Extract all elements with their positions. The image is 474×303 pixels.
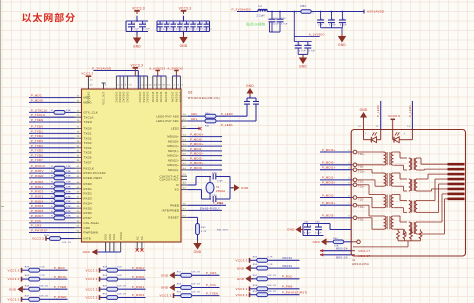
svg-text:P_CRS: P_CRS <box>31 224 42 228</box>
svg-text:R48: R48 <box>103 266 108 268</box>
title text 以太网部分 <box>22 13 75 23</box>
net label P_3V3AVDD <box>232 7 252 11</box>
capacitors C33 C34 on LED lines <box>244 96 259 111</box>
svg-text:AVDD33: AVDD33 <box>152 91 155 102</box>
svg-text:R: R <box>51 110 53 112</box>
svg-text:C25: C25 <box>281 18 286 20</box>
svg-text:33R: 33R <box>66 176 71 178</box>
svg-text:TXD4: TXD4 <box>84 146 92 150</box>
svg-text:AVDDIO: AVDDIO <box>175 92 178 103</box>
svg-text:RXD2: RXD2 <box>84 192 93 196</box>
svg-text:P_RXD3: P_RXD3 <box>31 194 44 198</box>
svg-text:R: R <box>51 201 53 203</box>
svg-text:P_TXD7: P_TXD7 <box>31 158 43 162</box>
ferrite bead FB2 <box>296 4 315 15</box>
svg-text:C: C <box>308 44 310 46</box>
svg-text:MDI0-1%: MDI0-1% <box>336 248 348 251</box>
svg-text:P_RXD2: P_RXD2 <box>31 190 44 194</box>
svg-text:10K 1%: 10K 1% <box>62 242 71 244</box>
svg-text:TXEN: TXEN <box>84 120 92 124</box>
wire row P_TXD2 <box>29 134 82 138</box>
svg-text:GTX_CLK: GTX_CLK <box>84 111 99 115</box>
J1 pin row P_MDI1+ <box>320 166 365 174</box>
svg-text:P_COL: P_COL <box>206 283 217 287</box>
svg-text:P_RXDV: P_RXDV <box>31 169 44 173</box>
ground (C29 C30) <box>299 55 308 69</box>
svg-text:R: R <box>51 191 53 193</box>
svg-text:0.1u: 0.1u <box>187 28 193 30</box>
svg-text:4.7K: 4.7K <box>267 256 273 258</box>
pull resistor R58 -> P_PME <box>235 285 299 292</box>
svg-text:R57: R57 <box>253 275 258 277</box>
IC right pin names <box>156 114 179 219</box>
svg-text:TD3+: TD3+ <box>358 206 365 209</box>
svg-text:AVDD33: AVDD33 <box>165 91 168 102</box>
ground (bank1) <box>133 35 142 49</box>
LED A inside J1 <box>364 130 381 143</box>
svg-text:RTL8211EG(VB-CG): RTL8211EG(VB-CG) <box>188 96 220 100</box>
svg-text:C2: C2 <box>207 23 211 25</box>
svg-text:P_MDI0-: P_MDI0- <box>322 161 335 165</box>
svg-text:TXD1: TXD1 <box>84 132 92 136</box>
ground (IC bottom) <box>83 249 98 255</box>
svg-text:C2: C2 <box>180 23 184 25</box>
svg-text:4.7K: 4.7K <box>201 231 207 233</box>
svg-text:33R: 33R <box>66 166 71 168</box>
svg-text:P_MDI1+: P_MDI1+ <box>322 166 336 170</box>
svg-text:CLKOUT-ALT: CLKOUT-ALT <box>159 178 179 182</box>
svg-text:GND: GND <box>133 45 141 49</box>
svg-text:P_3V3AVDD: P_3V3AVDD <box>232 7 252 11</box>
svg-text:DVDDIO: DVDDIO <box>139 92 142 103</box>
svg-text:P_TXER: P_TXER <box>54 285 66 289</box>
svg-text:RESET: RESET <box>168 216 179 220</box>
svg-text:P_LED0: P_LED0 <box>221 112 233 116</box>
power port VCC3.3 (INTB) <box>32 236 46 240</box>
capacitors C24 C25 <box>269 11 289 32</box>
svg-text:33R: 33R <box>66 171 71 173</box>
IC bottom ground pins <box>97 232 122 252</box>
svg-text:R54: R54 <box>177 292 182 294</box>
common-mode choke L2 in J1 <box>409 179 417 191</box>
svg-text:GND: GND <box>360 108 368 112</box>
J1 RJ45 contact comb <box>448 163 465 200</box>
svg-text:RXDV-PHYAD2: RXDV-PHYAD2 <box>84 171 106 175</box>
power port A_AVDD33 <box>149 67 165 77</box>
common-mode choke L4 in J1 <box>409 222 417 234</box>
svg-text:MDI[2]-: MDI[2]- <box>168 158 179 162</box>
svg-text:MDIO: MDIO <box>84 101 93 105</box>
svg-text:INTB/PMEB: INTB/PMEB <box>162 209 179 213</box>
svg-text:C2: C2 <box>174 23 178 25</box>
svg-text:R50: R50 <box>103 285 108 287</box>
svg-text:33R: 33R <box>66 110 71 112</box>
wire row P_MDI3+ (IC side) <box>181 161 222 165</box>
svg-text:P_MDI0-: P_MDI0- <box>190 137 203 141</box>
svg-text:DVDDIO: DVDDIO <box>143 92 146 103</box>
IC CLKOUT stub pins <box>181 174 187 184</box>
svg-text:10K 1%: 10K 1% <box>191 284 200 286</box>
svg-text:R42: R42 <box>201 227 206 229</box>
wire row P_RXDV <box>29 169 82 175</box>
svg-text:HR911105A: HR911105A <box>352 262 369 266</box>
svg-text:NC: NC <box>136 236 139 240</box>
pull resistor R52 -> P_CRS <box>161 271 220 279</box>
svg-text:R: R <box>51 166 53 168</box>
svg-text:C36: C36 <box>212 195 217 197</box>
svg-text:MDI[3]-: MDI[3]- <box>168 168 179 172</box>
svg-text:P_RXER: P_RXER <box>31 174 44 178</box>
J1 termination resistors <box>353 229 422 247</box>
J1 pin row P_MDI2- <box>320 193 364 201</box>
common-mode choke L3 in J1 <box>409 201 417 213</box>
svg-text:10K 1%: 10K 1% <box>191 292 200 294</box>
svg-text:NC: NC <box>141 236 144 240</box>
svg-text:P_MDI1-: P_MDI1- <box>322 176 335 180</box>
svg-text:MDI3-CT: MDI3-CT <box>359 255 371 258</box>
power port VCC3.3 (bank1) <box>132 7 145 15</box>
pull resistor R54 -> P_TXEN <box>159 291 219 298</box>
svg-text:VCC3.3: VCC3.3 <box>85 287 97 291</box>
svg-text:DVDDIO: DVDDIO <box>119 92 122 103</box>
pull resistor R46 -> P_TXER <box>9 285 68 293</box>
svg-text:4.7uF: 4.7uF <box>308 50 315 52</box>
svg-text:VCC3.3: VCC3.3 <box>85 296 97 300</box>
svg-text:P_PME: P_PME <box>282 285 293 289</box>
svg-text:AVDD33: AVDD33 <box>156 91 159 102</box>
svg-text:A3V3AVDD: A3V3AVDD <box>367 10 385 14</box>
wire row P_MDI2- (IC side) <box>181 156 222 160</box>
svg-text:61: 61 <box>167 85 170 87</box>
svg-text:GND: GND <box>105 234 108 240</box>
svg-text:R: R <box>51 206 53 208</box>
inductor L2 <box>257 4 268 18</box>
wire row P_RXD3 <box>29 194 82 200</box>
wire row P_RXER <box>29 174 82 180</box>
svg-text:MDC: MDC <box>84 96 91 100</box>
svg-text:VCC3.3: VCC3.3 <box>235 258 247 262</box>
svg-text:PMEB: PMEB <box>170 203 179 207</box>
svg-text:TD2+: TD2+ <box>358 186 365 189</box>
pull resistor R53 -> P_COL <box>161 283 220 291</box>
svg-text:VCC3.3: VCC3.3 <box>7 297 19 301</box>
svg-text:R49: R49 <box>103 275 108 277</box>
svg-text:P_3V3AVDD: P_3V3AVDD <box>92 66 112 70</box>
svg-text:C: C <box>332 19 334 21</box>
svg-text:X1: X1 <box>216 185 220 189</box>
svg-text:AD1: AD1 <box>191 117 197 121</box>
svg-text:TXD2: TXD2 <box>84 136 92 140</box>
capacitors C29 C30 on A_1VDDIO <box>293 11 325 57</box>
svg-text:R45: R45 <box>25 275 30 277</box>
svg-text:2.2K: 2.2K <box>267 264 273 266</box>
wire P_3V3AVDD to pin <box>92 66 138 89</box>
wire row P_MDI0- (IC side) <box>181 137 222 141</box>
ground up (LED caps) <box>246 84 254 96</box>
svg-text:P_TXD5: P_TXD5 <box>31 149 43 153</box>
svg-text:12pF: 12pF <box>217 180 223 182</box>
note green text <box>246 23 265 26</box>
svg-text:P_MDI1-: P_MDI1- <box>190 147 203 151</box>
svg-text:GND: GND <box>338 43 346 47</box>
svg-text:REG_OUT: REG_OUT <box>103 91 106 105</box>
svg-text:R56: R56 <box>253 264 258 266</box>
svg-text:LED0-PHY AD0: LED0-PHY AD0 <box>156 114 179 118</box>
IC top pin names (rotated) <box>88 91 183 105</box>
svg-text:R53: R53 <box>177 284 182 286</box>
svg-text:INTB: INTB <box>84 237 91 241</box>
svg-text:MDI[0]+: MDI[0]+ <box>167 135 179 139</box>
svg-text:33R: 33R <box>66 191 71 193</box>
svg-text:R41 49.9: R41 49.9 <box>217 230 228 232</box>
wires to crystal X1 <box>181 177 211 200</box>
pull resistor R59 -> P_PHYRST(RST) <box>235 290 307 297</box>
svg-text:2.2K: 2.2K <box>39 266 45 268</box>
pull resistor R50 -> P_RXD1 <box>85 285 145 292</box>
wire row P_MDI0+ (IC side) <box>181 133 222 137</box>
pull resistor R48 -> P_RXDV <box>85 266 145 273</box>
wire row config ENAB <box>181 206 222 210</box>
svg-text:P_MDI0+: P_MDI0+ <box>190 133 204 137</box>
ground (C26-C28) <box>338 34 347 48</box>
svg-text:C2: C2 <box>167 23 171 25</box>
svg-text:PWRDWN: PWRDWN <box>84 231 99 235</box>
J1 transformer-to-choke wiring <box>394 152 407 234</box>
svg-text:R55: R55 <box>253 256 258 258</box>
svg-text:2.2K: 2.2K <box>39 275 45 277</box>
svg-text:P_RXD2: P_RXD2 <box>132 293 145 297</box>
svg-text:R43: R43 <box>25 266 30 268</box>
pull resistor R51 -> P_RXD2 <box>85 293 145 300</box>
svg-text:GND: GND <box>299 65 307 69</box>
pull resistor R43 -> P_MDC <box>7 266 67 273</box>
capacitors C31 C32 (center tap) <box>301 221 351 235</box>
svg-text:R: R <box>51 176 53 178</box>
svg-text:R46: R46 <box>25 285 30 287</box>
svg-text:P_COL: P_COL <box>31 219 42 223</box>
svg-text:33R: 33R <box>66 216 71 218</box>
svg-text:VCC3.3: VCC3.3 <box>81 71 93 75</box>
svg-text:P_MDI3+: P_MDI3+ <box>190 161 204 165</box>
svg-text:R30: R30 <box>205 113 210 115</box>
svg-text:P_RXER: P_RXER <box>54 295 67 299</box>
svg-text:P_MDIO: P_MDIO <box>31 98 44 102</box>
svg-text:RXD3: RXD3 <box>84 197 93 201</box>
svg-text:P_RXC: P_RXC <box>282 275 293 279</box>
svg-text:TD0-: TD0- <box>358 166 364 169</box>
svg-text:GND: GND <box>194 250 202 254</box>
pull resistor R55 -> VDA33 <box>235 256 299 263</box>
J1 pin row P_MDI3+ <box>320 201 365 209</box>
svg-text:P_MDI2+: P_MDI2+ <box>322 181 336 185</box>
svg-text:33R: 33R <box>66 182 71 184</box>
svg-text:C2: C2 <box>187 23 191 25</box>
svg-text:C31: C31 <box>304 221 309 223</box>
J1 primary wiring <box>357 152 384 229</box>
connector J1 HR911105A outline <box>351 130 465 257</box>
wire P_LED0 vertical <box>376 101 381 130</box>
svg-text:R51: R51 <box>103 294 108 296</box>
svg-text:R: R <box>51 187 53 189</box>
svg-text:C: C <box>343 19 345 21</box>
wire row P_RXD6 <box>29 209 82 215</box>
wire row P_RXD2 <box>29 190 82 196</box>
wire row P_TXD5 <box>29 149 82 153</box>
svg-text:33R: 33R <box>66 211 71 213</box>
svg-text:P_LED1: P_LED1 <box>221 123 233 127</box>
svg-text:R: R <box>51 196 53 198</box>
svg-text:R: R <box>51 216 53 218</box>
svg-text:P_RXD7: P_RXD7 <box>31 214 44 218</box>
wire row P_MDI3- (IC side) <box>181 166 222 170</box>
svg-text:R31: R31 <box>205 125 210 127</box>
svg-text:GND: GND <box>287 228 295 232</box>
svg-text:33R: 33R <box>66 206 71 208</box>
svg-text:P_PHYRST: P_PHYRST <box>31 229 48 233</box>
svg-text:C: C <box>299 44 301 46</box>
svg-text:P_MDI3-: P_MDI3- <box>190 166 203 170</box>
svg-text:P_RXD5: P_RXD5 <box>31 204 44 208</box>
wire row P_COL <box>29 219 82 223</box>
power port VCC3.3 (top rail) <box>130 64 143 77</box>
wire row P_MDI1- (IC side) <box>181 147 222 151</box>
svg-text:XI: XI <box>176 183 179 187</box>
wire row P_TXEN <box>29 118 82 122</box>
svg-text:C2: C2 <box>200 23 204 25</box>
svg-text:TD2-: TD2- <box>358 198 364 201</box>
svg-text:R44: R44 <box>333 238 338 240</box>
svg-text:P_RXD0: P_RXD0 <box>31 180 44 184</box>
wire LED2 stub <box>181 127 202 131</box>
svg-text:R: R <box>51 211 53 213</box>
svg-text:GND: GND <box>237 277 245 281</box>
pull resistor R49 -> P_RXD0 <box>85 275 145 282</box>
svg-text:VDA33: VDA33 <box>282 256 292 260</box>
svg-text:AVDDIO: AVDDIO <box>171 92 174 103</box>
svg-text:GND: GND <box>113 234 116 240</box>
svg-text:GND: GND <box>83 250 91 254</box>
power port A_3VDDIO <box>167 67 183 77</box>
svg-text:RXD5: RXD5 <box>84 206 93 210</box>
J1 pin row P_MDI1- <box>320 176 364 184</box>
IC top power pins and rails <box>89 76 184 89</box>
svg-text:VCC3.3: VCC3.3 <box>7 277 19 281</box>
svg-text:P_MDI2+: P_MDI2+ <box>190 152 204 156</box>
transformer T1 in J1 <box>384 152 394 165</box>
IC left pin names <box>84 96 106 241</box>
resistor R28 on INTB row <box>44 235 81 244</box>
IC U6 designator <box>188 91 193 95</box>
svg-text:C2: C2 <box>160 23 164 25</box>
svg-text:C35: C35 <box>212 173 217 175</box>
svg-text:P_MDI3+: P_MDI3+ <box>322 201 336 205</box>
capacitor C36 (bottom) <box>212 195 230 205</box>
svg-text:VCC3.3: VCC3.3 <box>85 277 97 281</box>
resistor R42 on RESET <box>181 215 228 240</box>
svg-text:TXD6: TXD6 <box>84 156 92 160</box>
svg-text:C24: C24 <box>273 18 278 20</box>
pull resistor R47 -> P_RXER <box>7 295 67 302</box>
wire row P_RXD5 <box>29 204 82 210</box>
svg-text:P_LED0: P_LED0 <box>376 105 380 117</box>
J1 pin row P_MDI3- <box>320 214 364 222</box>
svg-text:VCC3.3: VCC3.3 <box>130 64 143 68</box>
transformer T4 in J1 <box>384 216 394 229</box>
svg-text:DVDDIO: DVDDIO <box>127 92 130 103</box>
svg-text:VCC3.3: VCC3.3 <box>32 237 44 241</box>
svg-text:10K 1%: 10K 1% <box>39 295 48 297</box>
svg-text:GND: GND <box>109 234 112 240</box>
svg-text:TD1+: TD1+ <box>358 171 365 174</box>
svg-text:0.1u: 0.1u <box>193 28 199 30</box>
svg-text:1uF: 1uF <box>318 25 323 27</box>
wire row P_PME <box>181 201 226 205</box>
svg-text:C: C <box>321 19 323 21</box>
wire row P_TXD0 <box>29 125 82 129</box>
svg-text:MDI[2]+: MDI[2]+ <box>167 154 179 158</box>
svg-text:GND: GND <box>161 274 169 278</box>
svg-text:RXD0: RXD0 <box>84 182 93 186</box>
ground left (CT caps) <box>287 226 303 233</box>
svg-text:RXCLK: RXCLK <box>84 166 95 170</box>
crystal X1 25MHz <box>206 177 226 200</box>
svg-text:P_LED1: P_LED1 <box>408 105 412 117</box>
svg-text:R: R <box>51 182 53 184</box>
pull resistor R56 -> VDA33 <box>237 264 300 272</box>
svg-text:P_GTXCLK: P_GTXCLK <box>31 108 48 112</box>
connector J1 labels <box>352 258 369 266</box>
wire row P_TXD3 <box>29 139 82 143</box>
capacitor bank C20-C27 with rails <box>157 16 212 35</box>
svg-text:TXD5: TXD5 <box>84 151 92 155</box>
svg-text:P_RXD1: P_RXD1 <box>31 185 44 189</box>
svg-text:10K 1%: 10K 1% <box>117 285 126 287</box>
wire row P_MDIO <box>29 98 82 102</box>
svg-text:R59: R59 <box>253 291 258 293</box>
ground left (R44) <box>313 238 329 245</box>
J1 pin row P_MDI0- <box>320 161 364 169</box>
svg-text:TD1-: TD1- <box>358 181 364 184</box>
svg-text:C1: C1 <box>132 23 136 25</box>
svg-text:GND: GND <box>9 287 17 291</box>
svg-text:P_PHYRST(RST): P_PHYRST(RST) <box>282 290 307 294</box>
svg-text:GND: GND <box>180 44 188 48</box>
wire row P_TXD4 <box>29 144 82 148</box>
svg-text:VCC3.3: VCC3.3 <box>179 7 192 11</box>
svg-text:P_TXD0: P_TXD0 <box>31 125 43 129</box>
pull resistor R57 -> P_RXC <box>237 275 300 283</box>
svg-text:10K 1%: 10K 1% <box>191 271 200 273</box>
svg-text:P_MDI2-: P_MDI2- <box>190 156 203 160</box>
svg-text:AD0: AD0 <box>191 112 197 116</box>
svg-text:VCC3.3: VCC3.3 <box>388 114 400 118</box>
common-mode choke L1 in J1 <box>409 158 417 170</box>
wire row P_PHYRST <box>29 229 82 233</box>
svg-text:P_RXD1: P_RXD1 <box>132 285 145 289</box>
svg-text:4.7uF: 4.7uF <box>304 232 311 234</box>
ground right (crystal) <box>232 184 250 191</box>
svg-text:10K: 10K <box>117 266 122 268</box>
wire LED1 row with resistor R31 <box>181 110 256 127</box>
wire row P_MDI1+ (IC side) <box>181 142 222 146</box>
power port VCC3.3 (IC pin60) <box>81 71 93 76</box>
svg-text:GND: GND <box>241 186 249 190</box>
wire row P_TXD1 <box>29 129 82 133</box>
svg-text:C32: C32 <box>315 221 320 223</box>
wire LED0 row with resistor R30 <box>181 110 247 118</box>
svg-text:25MHz: 25MHz <box>216 189 226 193</box>
wire row P_MDC <box>29 94 82 98</box>
